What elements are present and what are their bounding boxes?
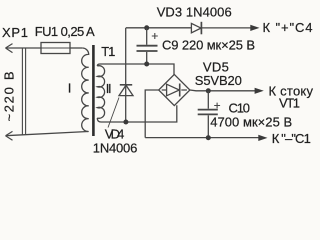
wire fuse to T1 primary xyxy=(70,47,82,49)
capacitor C10 xyxy=(198,91,220,138)
transformer T1 secondary winding II xyxy=(97,64,104,122)
diode VD4 xyxy=(119,85,133,96)
svg-text:XP1: XP1 xyxy=(2,25,28,40)
svg-text:VD4: VD4 xyxy=(105,126,125,141)
svg-text:VD3 1N4006: VD3 1N4006 xyxy=(157,4,232,19)
node dot C10 top xyxy=(206,88,211,93)
svg-text:I: I xyxy=(68,81,72,96)
wire top rail xyxy=(126,27,192,29)
svg-text:С10: С10 xyxy=(229,101,251,116)
bridge rectifier VD5 xyxy=(159,74,190,105)
wire bridge right to output xyxy=(190,89,255,92)
node dot VD4 cathode junction xyxy=(123,120,128,125)
svg-text:С9 220 мк×25 В: С9 220 мк×25 В xyxy=(162,38,255,53)
arrow to -C1 xyxy=(258,135,267,141)
transformer T1 primary winding I xyxy=(82,48,89,132)
wire VD4 vertical xyxy=(125,28,127,122)
node dot C9 bottom xyxy=(144,62,149,67)
svg-text:К "+"С4: К "+"С4 xyxy=(263,20,313,35)
wire secondary top to bridge xyxy=(100,64,174,75)
svg-text:1N4006: 1N4006 xyxy=(93,141,138,156)
leader line VD4 xyxy=(108,98,119,128)
svg-text:К "–"С1: К "–"С1 xyxy=(272,131,311,146)
connector XP1 bottom pin arrow xyxy=(6,131,13,140)
capacitor C9 xyxy=(137,28,158,64)
fuse FU1 xyxy=(41,43,70,54)
svg-text:FU1 0,25 A: FU1 0,25 A xyxy=(35,24,95,39)
svg-text:II: II xyxy=(106,81,112,96)
arrow to +C4 xyxy=(250,25,259,31)
wire top mains xyxy=(6,47,42,49)
svg-text:S5VB20: S5VB20 xyxy=(195,73,242,88)
connector XP1 top pin arrow xyxy=(6,44,13,53)
wire secondary bottom to bridge xyxy=(101,105,177,122)
svg-text:VT1: VT1 xyxy=(279,96,300,111)
arrow to drain VT1 xyxy=(255,88,264,94)
node dot C10 bottom xyxy=(206,135,211,140)
svg-text:~220 В: ~220 В xyxy=(2,72,17,122)
connector XP1 double line xyxy=(22,48,25,135)
svg-text:T1: T1 xyxy=(101,44,115,59)
svg-text:4700 мк×25 В: 4700 мк×25 В xyxy=(210,115,292,130)
wire bottom mains xyxy=(6,132,89,136)
wire top rail right xyxy=(201,27,251,29)
node dot C9 top xyxy=(144,25,149,30)
wire bottom rail xyxy=(145,137,259,139)
diode VD3 xyxy=(191,22,201,35)
transformer T1 core xyxy=(92,45,95,136)
wire bridge left to bottom rail xyxy=(145,90,159,138)
